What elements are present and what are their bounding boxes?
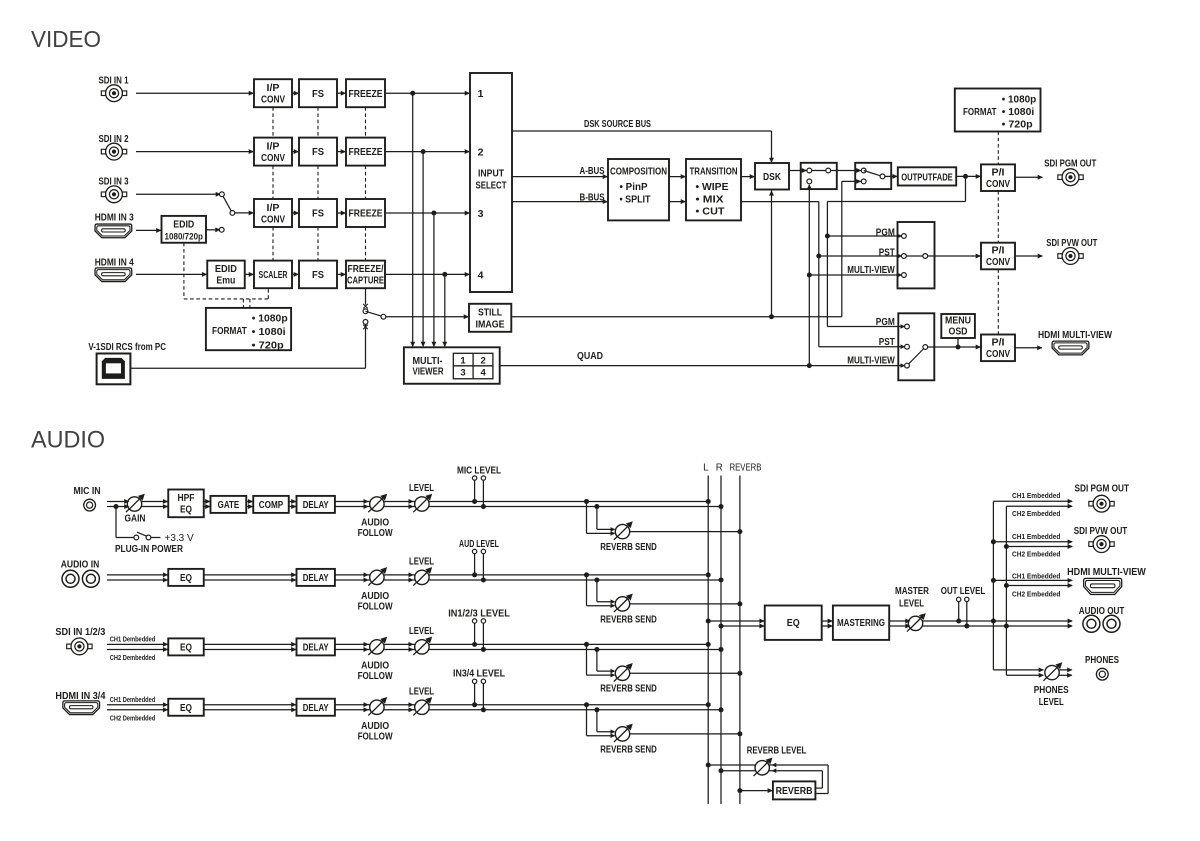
svg-text:HDMI IN 3/4: HDMI IN 3/4 [55, 690, 105, 702]
svg-text:• 720p: • 720p [252, 340, 284, 352]
svg-text:SELECT: SELECT [476, 180, 507, 192]
svg-text:• SPLIT: • SPLIT [620, 193, 651, 205]
svg-text:3: 3 [478, 208, 484, 220]
svg-text:FS: FS [312, 208, 324, 220]
svg-text:LEVEL: LEVEL [899, 598, 924, 610]
svg-text:PHONES: PHONES [1034, 684, 1069, 696]
svg-text:REVERB SEND: REVERB SEND [600, 743, 657, 755]
svg-text:FORMAT: FORMAT [963, 106, 997, 118]
svg-text:MULTI-VIEW: MULTI-VIEW [847, 264, 895, 276]
svg-text:CAPTURE: CAPTURE [347, 275, 384, 287]
svg-text:CH2 Dembedded: CH2 Dembedded [110, 653, 156, 662]
svg-text:DELAY: DELAY [303, 702, 329, 714]
svg-text:MULTI-VIEW: MULTI-VIEW [847, 354, 895, 366]
svg-text:EDID: EDID [173, 219, 194, 231]
svg-text:1080/720p: 1080/720p [165, 231, 204, 241]
svg-text:AUDIO OUT: AUDIO OUT [1079, 605, 1125, 617]
svg-text:FOLLOW: FOLLOW [358, 730, 393, 742]
svg-text:P/I: P/I [992, 336, 1005, 348]
svg-text:PGM: PGM [876, 226, 895, 238]
svg-text:• 1080i: • 1080i [252, 326, 286, 338]
svg-text:CH2 Embedded: CH2 Embedded [1012, 590, 1061, 599]
svg-text:SDI IN 1: SDI IN 1 [99, 74, 129, 86]
svg-text:• 1080p: • 1080p [1002, 94, 1037, 106]
svg-text:CH2 Embedded: CH2 Embedded [1012, 509, 1061, 518]
svg-text:CH1 Embedded: CH1 Embedded [1012, 532, 1061, 541]
svg-text:LEVEL: LEVEL [409, 625, 434, 637]
svg-text:CH2 Embedded: CH2 Embedded [1012, 549, 1061, 558]
svg-text:• 1080i: • 1080i [1002, 106, 1035, 118]
svg-text:IN1/2/3 LEVEL: IN1/2/3 LEVEL [448, 607, 510, 619]
svg-text:4: 4 [478, 269, 484, 281]
svg-text:PGM: PGM [876, 316, 895, 328]
svg-text:HDMI MULTI-VIEW: HDMI MULTI-VIEW [1038, 329, 1112, 341]
svg-text:FOLLOW: FOLLOW [358, 670, 393, 682]
svg-text:+3.3 V: +3.3 V [165, 533, 195, 544]
svg-text:OUT LEVEL: OUT LEVEL [941, 585, 986, 597]
svg-text:DELAY: DELAY [303, 641, 329, 653]
svg-text:B-BUS: B-BUS [580, 192, 605, 204]
svg-text:MIC IN: MIC IN [74, 485, 101, 497]
svg-text:FREEZE/: FREEZE/ [348, 263, 384, 275]
svg-text:FREEZE: FREEZE [349, 146, 383, 158]
svg-text:REVERB SEND: REVERB SEND [600, 613, 657, 625]
svg-text:REVERB: REVERB [730, 462, 762, 473]
svg-text:CH1 Embedded: CH1 Embedded [1012, 491, 1061, 500]
svg-text:FS: FS [312, 146, 324, 158]
svg-text:EQ: EQ [180, 641, 192, 653]
svg-text:• CUT: • CUT [696, 206, 726, 218]
svg-text:MIC LEVEL: MIC LEVEL [457, 464, 501, 476]
svg-text:SDI PVW OUT: SDI PVW OUT [1046, 237, 1097, 249]
svg-text:OSD: OSD [949, 326, 968, 338]
svg-text:DSK SOURCE BUS: DSK SOURCE BUS [584, 118, 651, 130]
svg-text:IN3/4 LEVEL: IN3/4 LEVEL [453, 668, 505, 680]
svg-text:FS: FS [312, 269, 324, 281]
svg-text:LEVEL: LEVEL [409, 482, 434, 494]
svg-text:LEVEL: LEVEL [409, 555, 434, 567]
svg-text:L: L [703, 462, 709, 473]
svg-text:OUTPUTFADE: OUTPUTFADE [901, 171, 953, 183]
svg-text:• MIX: • MIX [696, 193, 724, 205]
svg-text:SDI PGM OUT: SDI PGM OUT [1044, 157, 1096, 169]
svg-text:• WIPE: • WIPE [696, 181, 729, 193]
svg-text:REVERB: REVERB [776, 785, 813, 797]
svg-text:CONV: CONV [261, 152, 285, 164]
svg-text:PLUG-IN POWER: PLUG-IN POWER [115, 543, 183, 555]
svg-text:SCALER: SCALER [259, 269, 288, 281]
svg-text:GAIN: GAIN [125, 512, 146, 524]
svg-text:Emu: Emu [216, 275, 235, 287]
svg-text:EQ: EQ [180, 572, 192, 584]
svg-text:GATE: GATE [218, 499, 240, 511]
svg-text:COMPOSITION: COMPOSITION [610, 165, 667, 177]
svg-text:SDI PVW OUT: SDI PVW OUT [1074, 525, 1128, 537]
svg-text:AUDIO IN: AUDIO IN [61, 559, 100, 571]
svg-text:EQ: EQ [787, 617, 800, 629]
svg-text:VIEWER: VIEWER [413, 365, 444, 377]
svg-text:• 1080p: • 1080p [252, 313, 288, 325]
svg-text:EQ: EQ [180, 702, 192, 714]
svg-text:P/I: P/I [992, 166, 1005, 178]
svg-text:HDMI MULTI-VIEW: HDMI MULTI-VIEW [1067, 566, 1146, 578]
svg-text:AUDIO: AUDIO [31, 427, 105, 454]
svg-text:DSK: DSK [763, 171, 781, 183]
svg-text:FREEZE: FREEZE [349, 88, 383, 100]
svg-text:VIDEO: VIDEO [31, 26, 101, 52]
svg-text:3: 3 [460, 368, 465, 379]
svg-text:SDI PGM OUT: SDI PGM OUT [1075, 483, 1130, 495]
svg-text:STILL: STILL [478, 306, 502, 318]
svg-text:V-1SDI RCS from PC: V-1SDI RCS from PC [88, 341, 166, 353]
svg-text:AUD LEVEL: AUD LEVEL [459, 538, 499, 550]
svg-text:SDI IN 3: SDI IN 3 [99, 176, 129, 188]
svg-text:1: 1 [478, 88, 484, 100]
svg-text:CONV: CONV [261, 94, 285, 106]
svg-text:REVERB SEND: REVERB SEND [600, 683, 657, 695]
svg-text:INPUT: INPUT [478, 168, 504, 180]
svg-text:HDMI IN 4: HDMI IN 4 [95, 256, 134, 268]
svg-text:I/P: I/P [267, 202, 280, 214]
svg-text:PHONES: PHONES [1085, 654, 1119, 666]
svg-text:CH1 Embedded: CH1 Embedded [1012, 571, 1061, 580]
svg-text:• PinP: • PinP [620, 181, 648, 193]
svg-text:FOLLOW: FOLLOW [358, 527, 393, 539]
svg-text:HPF: HPF [178, 492, 195, 504]
svg-text:2: 2 [478, 147, 484, 159]
svg-text:CH1 Dembedded: CH1 Dembedded [110, 695, 156, 704]
svg-text:FS: FS [312, 88, 324, 100]
svg-text:1: 1 [460, 355, 466, 366]
svg-text:4: 4 [481, 368, 487, 379]
svg-text:P/I: P/I [992, 245, 1005, 257]
svg-text:QUAD: QUAD [577, 350, 603, 362]
svg-text:CONV: CONV [986, 348, 1010, 360]
svg-text:FOLLOW: FOLLOW [358, 600, 393, 612]
svg-text:REVERB LEVEL: REVERB LEVEL [747, 745, 807, 757]
svg-text:PST: PST [879, 246, 895, 258]
svg-text:EDID: EDID [215, 263, 237, 275]
svg-text:2: 2 [481, 355, 486, 366]
svg-text:SDI IN 2: SDI IN 2 [99, 133, 129, 145]
svg-text:LEVEL: LEVEL [409, 685, 434, 697]
svg-text:CONV: CONV [986, 178, 1010, 190]
svg-text:CH2 Dembedded: CH2 Dembedded [110, 713, 156, 722]
svg-text:LEVEL: LEVEL [1039, 696, 1064, 708]
svg-text:MASTER: MASTER [895, 585, 929, 597]
svg-text:HDMI IN 3: HDMI IN 3 [95, 211, 134, 223]
svg-text:IMAGE: IMAGE [476, 319, 505, 331]
svg-text:CONV: CONV [986, 256, 1010, 268]
svg-text:CH1 Dembedded: CH1 Dembedded [110, 635, 156, 644]
svg-text:MASTERING: MASTERING [837, 617, 885, 629]
svg-text:TRANSITION: TRANSITION [690, 165, 738, 177]
svg-text:FREEZE: FREEZE [349, 208, 383, 220]
svg-text:PST: PST [879, 336, 895, 348]
svg-text:R: R [716, 462, 723, 473]
svg-text:SDI IN 1/2/3: SDI IN 1/2/3 [55, 626, 105, 638]
svg-text:REVERB SEND: REVERB SEND [600, 541, 657, 553]
svg-text:I/P: I/P [267, 140, 280, 152]
svg-text:DELAY: DELAY [303, 572, 329, 584]
svg-text:EQ: EQ [180, 504, 192, 516]
svg-text:DELAY: DELAY [303, 499, 329, 511]
svg-text:FORMAT: FORMAT [212, 325, 247, 337]
svg-text:I/P: I/P [267, 82, 280, 94]
svg-text:COMP: COMP [259, 499, 284, 511]
svg-text:CONV: CONV [261, 213, 285, 225]
svg-text:• 720p: • 720p [1002, 118, 1033, 130]
svg-text:A-BUS: A-BUS [580, 165, 605, 177]
